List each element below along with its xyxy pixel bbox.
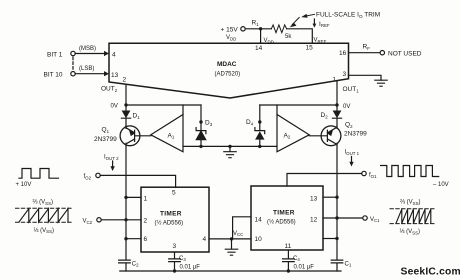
svg-text:D3: D3 — [205, 120, 213, 127]
wire pin 3 to ground — [349, 75, 382, 80]
svg-text:12: 12 — [310, 216, 318, 223]
svg-text:16: 16 — [339, 50, 347, 57]
node pin13 junction — [335, 196, 338, 199]
svg-text:2: 2 — [144, 217, 148, 224]
terminal NOT USED — [380, 51, 384, 55]
svg-text:(½ AD556): (½ AD556) — [155, 220, 184, 227]
svg-text:IOUT 1: IOUT 1 — [345, 150, 360, 156]
dashed line between BIT terminals — [72, 57, 74, 70]
svg-text:VREF: VREF — [314, 38, 327, 44]
svg-text:C3: C3 — [179, 256, 186, 262]
svg-text:OUT1: OUT1 — [343, 86, 360, 93]
node C3 on rail — [173, 269, 176, 272]
ground mid — [224, 146, 236, 157]
wire timer2 pin 11 down — [287, 250, 289, 259]
timer U3 (1/2 AD556) box — [251, 186, 323, 250]
svg-text:1: 1 — [144, 196, 148, 203]
arrow IOUT2 — [112, 161, 114, 167]
diode D1 — [121, 105, 130, 126]
svg-text:11: 11 — [285, 243, 292, 250]
wire 0V right rail — [260, 104, 337, 106]
svg-text:5: 5 — [172, 190, 176, 197]
svg-text:D2: D2 — [321, 112, 329, 119]
wire bottom rail — [120, 270, 341, 272]
svg-text:4: 4 — [112, 52, 116, 59]
svg-text:2N3799: 2N3799 — [94, 136, 117, 143]
wire timer2 pin 12 to VC1 — [323, 217, 363, 219]
svg-text:NOT USED: NOT USED — [388, 51, 422, 58]
wire timer2 pin 13 — [323, 196, 337, 198]
svg-text:0.01 μF: 0.01 μF — [180, 265, 201, 271]
svg-text:MDAC: MDAC — [217, 61, 237, 68]
svg-text:RF: RF — [363, 44, 371, 51]
dashed threshold lines left — [16, 207, 74, 209]
transistor Q1 2N3799 — [120, 126, 140, 146]
transistor Q2 2N3799 — [321, 126, 341, 146]
svg-text:3: 3 — [173, 243, 177, 250]
svg-text:13: 13 — [111, 72, 119, 79]
svg-text:3: 3 — [343, 71, 347, 78]
svg-text:C4: C4 — [293, 256, 300, 262]
svg-text:2N3799: 2N3799 — [344, 131, 367, 138]
svg-text:D4: D4 — [246, 119, 254, 126]
node pin12 junction — [335, 216, 338, 219]
waveform right square wave — [381, 166, 439, 177]
node 0V left — [124, 103, 127, 106]
wire BIT10 to pin 13 with arrow — [75, 73, 104, 75]
svg-text:A2: A2 — [284, 132, 291, 139]
svg-text:SeekIC.com: SeekIC.com — [401, 267, 460, 278]
svg-text:⅔ (VSS): ⅔ (VSS) — [400, 200, 421, 206]
waveform right sawtooth — [396, 209, 431, 223]
wire +15V to R1 — [245, 28, 271, 30]
op-amp A2 — [277, 115, 309, 152]
svg-text:fO1: fO1 — [369, 173, 377, 179]
arrow IOUT1 — [351, 157, 353, 163]
svg-text:⅓ (VSS): ⅓ (VSS) — [400, 229, 421, 235]
svg-text:BIT 1: BIT 1 — [47, 51, 63, 58]
diode D2 — [332, 105, 341, 126]
svg-text:4: 4 — [203, 236, 207, 243]
svg-text:VC1: VC1 — [370, 217, 380, 223]
node D4 top — [258, 120, 261, 123]
svg-text:VDD: VDD — [226, 35, 236, 41]
dashed threshold lines right — [390, 208, 435, 210]
svg-text:(AD7520): (AD7520) — [215, 72, 241, 78]
svg-text:0V: 0V — [343, 104, 350, 110]
svg-text:(MSB): (MSB) — [79, 46, 96, 52]
svg-text:10: 10 — [255, 236, 263, 243]
svg-text:⅓ (VSS): ⅓ (VSS) — [34, 228, 55, 234]
svg-text:IOUT 2: IOUT 2 — [104, 155, 119, 161]
wire A1 bottom to A2 bottom (ground rail) — [183, 145, 277, 147]
resistor R1 5k zigzag — [271, 25, 286, 33]
waveform left square wave — [19, 169, 59, 179]
MDAC U1 (AD7520) outline — [109, 43, 349, 98]
svg-text:(½ AD556): (½ AD556) — [267, 219, 296, 226]
node pin1 junction — [124, 196, 127, 199]
timer U2 (1/2 AD556) box — [141, 187, 209, 252]
wire down to D3 — [200, 105, 202, 122]
svg-text:14: 14 — [255, 45, 263, 52]
wire D4 top to 0V right — [259, 105, 261, 122]
terminal +15V — [241, 27, 245, 31]
node 0V right — [335, 103, 338, 106]
wire pin 16 to RF terminal — [349, 52, 381, 54]
wire OUT1 stub from pin 1 — [336, 81, 338, 105]
svg-text:TIMER: TIMER — [273, 210, 295, 217]
svg-text:⅔ (VSS): ⅔ (VSS) — [33, 200, 54, 206]
capacitor C3 — [169, 259, 181, 271]
svg-text:VC2: VC2 — [83, 219, 93, 225]
svg-text:(LSB): (LSB) — [79, 66, 94, 72]
svg-text:0.01 μF: 0.01 μF — [294, 265, 315, 271]
wire A2 top stub — [276, 105, 278, 115]
node D4 bottom — [258, 145, 261, 148]
terminal f02 — [96, 173, 100, 177]
capacitor C4 — [283, 259, 295, 271]
node right pin junction — [335, 237, 338, 240]
wire pin 6 — [126, 238, 141, 240]
node mid ground junction — [228, 145, 231, 148]
svg-text:15: 15 — [306, 45, 314, 52]
svg-text:VDD: VDD — [264, 38, 274, 44]
svg-text:OUT2: OUT2 — [101, 86, 118, 93]
wire timer1 pin 4 to timer2 pin 10 — [209, 238, 251, 240]
svg-text:1: 1 — [333, 77, 337, 84]
svg-text:C2: C2 — [132, 261, 139, 267]
node D3 top — [199, 120, 202, 123]
capacitor C1 — [331, 260, 343, 271]
terminal f01 — [362, 171, 366, 175]
svg-text:Q1: Q1 — [102, 127, 110, 134]
svg-text:A1: A1 — [168, 132, 175, 139]
svg-text:R1: R1 — [252, 20, 260, 27]
wire BIT1 to pin 4 with arrow — [75, 53, 104, 55]
terminal VC2 — [97, 218, 101, 222]
wire f02 to timer1 pin 5 — [100, 175, 175, 187]
svg-text:2: 2 — [123, 77, 127, 84]
svg-text:0V: 0V — [111, 104, 118, 110]
wire f01 to timer2 top pin — [287, 174, 362, 187]
node VDD junction dot — [259, 27, 262, 30]
ground at pin 3 — [375, 80, 387, 86]
wire Q1 emitter bus down — [125, 146, 127, 260]
arrow from FULL-SCALE label — [306, 14, 315, 16]
svg-text:C1: C1 — [345, 261, 352, 267]
svg-text:14: 14 — [255, 216, 263, 223]
ground at VCC — [225, 239, 237, 255]
svg-text:VCC: VCC — [233, 231, 243, 237]
wire pin14 stub — [260, 29, 262, 44]
IREF down arrow — [313, 19, 315, 24]
diode D4 (schottky, pointing up) — [255, 122, 265, 146]
svg-text:5k: 5k — [285, 34, 292, 40]
node pin6 junction — [124, 237, 127, 240]
svg-text:BIT 10: BIT 10 — [44, 72, 63, 79]
diode D3 (schottky, pointing up) — [196, 122, 206, 146]
svg-text:+ 10V: + 10V — [16, 182, 32, 188]
node C4 on rail — [287, 269, 290, 272]
svg-text:IREF: IREF — [319, 21, 330, 28]
terminal VC1 — [363, 216, 367, 220]
wire R1 to pin15 corner — [287, 29, 313, 44]
svg-text:13: 13 — [310, 196, 318, 203]
node VCC junction — [230, 237, 233, 240]
svg-text:+ 15V: + 15V — [221, 27, 239, 34]
wire VC2 to pin 2 — [101, 219, 141, 221]
wire A1 top stub — [182, 105, 184, 115]
capacitor C2 — [119, 260, 131, 271]
svg-text:– 10V: – 10V — [433, 182, 449, 188]
waveform left sawtooth — [19, 209, 68, 222]
wire Q2 emitter bus down — [336, 146, 338, 260]
wire VCC up to pin 14 — [233, 217, 251, 239]
wire timer1 pin 3 down — [174, 252, 176, 259]
potentiometer wiper arrow — [292, 18, 299, 25]
op-amp A1 — [151, 115, 183, 152]
svg-text:Q2: Q2 — [345, 122, 353, 129]
wire Q1 base to A1 — [135, 135, 151, 137]
svg-text:fO2: fO2 — [84, 174, 92, 180]
wire 0V left rail — [126, 104, 201, 106]
node D3 bottom — [199, 145, 202, 148]
terminal BIT 1 — [71, 51, 75, 55]
wire timer2 right pin — [323, 238, 337, 240]
svg-text:D1: D1 — [133, 113, 141, 120]
wire Q2 base to A2 — [309, 135, 327, 137]
terminal BIT 10 — [71, 72, 75, 76]
wire OUT2 stub from pin 2 — [125, 84, 127, 105]
svg-text:TIMER: TIMER — [160, 211, 182, 218]
wire pin 1 — [126, 196, 141, 198]
svg-text:6: 6 — [144, 236, 148, 243]
svg-text:FULL-SCALE IO TRIM: FULL-SCALE IO TRIM — [316, 12, 380, 19]
node pin2 junction — [124, 218, 127, 221]
